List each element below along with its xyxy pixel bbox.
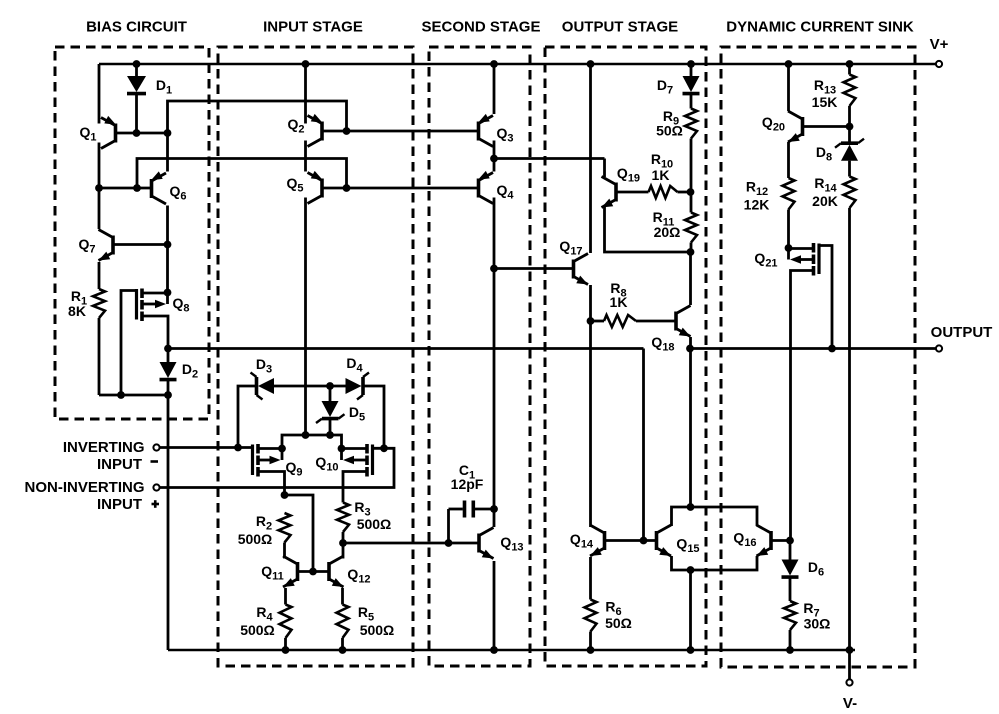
wire Q20 base [804, 125, 850, 128]
node Q8 drain [164, 289, 172, 297]
bias circuit dashed box [55, 47, 209, 419]
label R9 value [656, 123, 683, 139]
svg-text:500Ω: 500Ω [360, 622, 395, 638]
node Q3 collector [490, 155, 498, 163]
label R7 value [804, 616, 831, 632]
wire Q14 emitter to R6 [589, 557, 592, 600]
diode D1 [127, 76, 146, 94]
svg-text:DYNAMIC CURRENT SINK: DYNAMIC CURRENT SINK [726, 19, 914, 36]
label Q3 [496, 125, 513, 145]
wire non-inverting input [160, 448, 395, 487]
transistor Q12 [329, 556, 344, 587]
output stage dashed box [545, 47, 706, 666]
node Q16 base / D6 / Q21 source [786, 537, 794, 545]
NON-INVERTING terminal [153, 484, 159, 490]
arrow Q21 body [790, 255, 812, 264]
wire Q3 collector to Q19 [494, 157, 605, 160]
capacitor C1 [449, 501, 495, 518]
diode D8 (zener) [835, 139, 864, 161]
V- rail (bottom) [168, 649, 855, 652]
label R8 [610, 280, 626, 300]
label Q20 [762, 114, 785, 134]
resistor R8 [604, 315, 636, 327]
wire Q12 emitter to R5 [341, 588, 344, 605]
diode D2 [160, 362, 177, 380]
svg-text:12K: 12K [744, 197, 770, 213]
node C1 / Q13 collector [490, 505, 498, 513]
wire R4 bottom [284, 638, 287, 650]
wire Q19 collector [603, 159, 606, 178]
output wire right segment [690, 347, 936, 350]
resistor R6 [585, 600, 597, 632]
wire D7 top lead [690, 64, 693, 76]
wire R9 bottom [690, 139, 693, 213]
wire Q7 emitter to R1 [98, 262, 101, 289]
wire R11 bottom [690, 243, 693, 253]
svg-text:500Ω: 500Ω [238, 531, 273, 547]
label Q13 [500, 534, 523, 554]
stage title BIAS CIRCUIT [86, 19, 187, 36]
node R13 / D8 / Q20 base [846, 123, 854, 131]
V- terminal [846, 679, 852, 685]
transistor Q20 [788, 111, 803, 142]
wire Q2-Q3 base [323, 130, 477, 133]
wire Q8 source lead [144, 316, 169, 349]
label R12 [746, 179, 768, 199]
resistor R10 [649, 186, 678, 198]
label Q10 [315, 454, 338, 474]
input stage dashed box [218, 47, 413, 666]
wire Q15 collector top link [672, 507, 758, 526]
wire Q4 collector drop [493, 198, 496, 528]
label INVERTING [63, 439, 145, 456]
svg-text:8K: 8K [68, 303, 86, 319]
wire C1 left drop [447, 509, 450, 543]
node Q21 drain / R12 [785, 244, 793, 252]
node Q9 drain [278, 445, 286, 453]
node Q17 emitter / R8 [587, 317, 595, 325]
node R7 / V- rail [786, 646, 794, 654]
wire long drop to V- rail [167, 395, 170, 650]
label Q14 [570, 531, 594, 551]
label R6 [605, 599, 621, 619]
label plus sign [152, 500, 160, 508]
wire R10 left lead [618, 191, 649, 194]
resistor R9 [685, 109, 697, 139]
OUTPUT terminal [936, 345, 942, 351]
wire V+ to Q1 emitter [98, 64, 101, 124]
label R14 value [812, 193, 838, 209]
resistor R2 [279, 513, 291, 543]
label NON-INVERTING [25, 479, 145, 496]
label C1 [459, 462, 475, 482]
label R13 [814, 77, 836, 97]
resistor R3 [337, 503, 349, 533]
wire riser to input pair [168, 101, 347, 133]
label INPUT (non-inverting) [97, 496, 142, 513]
svg-text:INPUT: INPUT [97, 456, 142, 473]
label R2 [256, 513, 272, 533]
wire Q18 collector [689, 252, 692, 305]
svg-text:15K: 15K [812, 94, 838, 110]
node Q7 base [164, 241, 172, 249]
V+ rail [99, 63, 936, 66]
wire Q17 collector drop [589, 64, 592, 253]
wire Q21 gate lead [819, 246, 832, 349]
diode D7 [683, 76, 700, 94]
transistor Q15 [657, 525, 672, 556]
svg-text:12pF: 12pF [451, 476, 484, 492]
transistor Q17 [574, 254, 589, 285]
wire Q21 body stub [787, 249, 790, 260]
resistor R7 [784, 601, 796, 630]
label D6 [808, 559, 824, 579]
svg-text:50Ω: 50Ω [605, 615, 632, 631]
svg-text:SECOND STAGE: SECOND STAGE [422, 19, 541, 36]
label Q17 [559, 238, 582, 258]
node R9-R10-R11 [687, 188, 695, 196]
node D2 bottom [164, 391, 172, 399]
node Q17 collector rail [587, 60, 595, 68]
transistor Q1 [101, 116, 116, 149]
wire Q2 emitter drop [304, 64, 307, 124]
wire R3 bottom [342, 532, 345, 559]
V+ label [930, 36, 949, 53]
dynamic current sink dashed box [721, 47, 915, 667]
label R3 value [357, 516, 392, 532]
node bottom link center [687, 566, 695, 574]
svg-text:V+: V+ [930, 36, 949, 53]
wire Q9 drain lead [260, 447, 283, 450]
wire Q10 source [343, 472, 366, 503]
wire R3 to Q13 base [343, 542, 478, 545]
svg-text:V-: V- [843, 695, 857, 712]
wire R14 bottom drop [848, 208, 851, 650]
node D1 top [133, 60, 141, 68]
wire R6 bottom [589, 632, 592, 651]
wire Q5 collector drop [304, 198, 307, 436]
svg-text:BIAS CIRCUIT: BIAS CIRCUIT [86, 19, 187, 36]
stage title INPUT STAGE [263, 19, 363, 36]
wire drain bridge [282, 435, 342, 449]
mosfet Q9 [253, 444, 259, 477]
wire D1 bottom [135, 95, 138, 134]
stage title SECOND STAGE [422, 19, 541, 36]
diode D5 (zener) [316, 401, 345, 423]
node Q4 collector / Q17 base [490, 265, 498, 273]
wire Q4 emitter [493, 159, 496, 172]
label Q15 [676, 536, 699, 556]
node Q3 emitter rail [490, 60, 498, 68]
wire D5 top lead [329, 386, 332, 401]
wire Q4 collector to Q17 base [494, 267, 572, 270]
wire D6 top lead [789, 541, 792, 560]
label D5 [349, 404, 365, 424]
label Q16 [733, 530, 756, 550]
OUTPUT label [931, 324, 993, 341]
wire bottom link to V- rail [689, 570, 692, 650]
resistor R13 [844, 75, 856, 107]
wire Q21 drain lead [789, 247, 813, 250]
mosfet Q21 [814, 243, 820, 276]
resistor R11 [685, 213, 697, 243]
node Q18 emitter / output [686, 345, 694, 353]
wire Q8 body stub [166, 293, 169, 304]
node R2 top / Q9 source [281, 491, 289, 499]
node Q6 base riser [133, 184, 141, 192]
node Q13 emitter / V- rail [490, 646, 498, 654]
label Q18 [651, 334, 674, 354]
svg-text:500Ω: 500Ω [357, 516, 392, 532]
wire inverting input [160, 446, 253, 449]
resistor R14 [844, 177, 856, 209]
wire Q19 emitter drop [605, 207, 691, 252]
label R4 [256, 604, 273, 624]
node R4 / V- rail [282, 646, 290, 654]
wire Q11-Q12 base [299, 570, 328, 573]
transistor Q14 [590, 525, 605, 556]
wire D7 to R9 [690, 95, 693, 109]
node Q2 emitter rail [302, 60, 310, 68]
wire D1 top [135, 64, 138, 76]
wire Q7 base [114, 243, 168, 246]
node Q5 base riser [343, 184, 351, 192]
label R8 value [610, 294, 628, 310]
wire output to Q14-Q15 base [642, 349, 645, 541]
node Q11-Q12 base [309, 568, 317, 576]
resistor R1 [93, 289, 105, 318]
svg-text:OUTPUT STAGE: OUTPUT STAGE [562, 19, 678, 36]
transistor Q18 [676, 306, 691, 337]
label R1 value [68, 303, 86, 319]
label R4 value [240, 622, 275, 638]
node D4 / Q10 gate [380, 444, 388, 452]
node R3 bottom / second stage [339, 539, 347, 547]
node bridge / D5 [326, 431, 334, 439]
wire Q16 base [772, 539, 790, 542]
wire Q3 emitter drop [493, 64, 496, 114]
wire R1 bottom [98, 318, 101, 395]
label R1 [71, 288, 87, 308]
node R6 / V- rail [587, 646, 595, 654]
wire R10 right lead [678, 191, 691, 194]
wire R13 bottom [848, 106, 851, 143]
label D1 [156, 77, 172, 97]
INVERTING terminal [153, 444, 159, 450]
node bridge / Q5 collector [302, 431, 310, 439]
wire R8 left lead [591, 320, 605, 323]
wire Q1 base [117, 132, 168, 135]
wire D3-D4 link [274, 385, 346, 388]
wire D3 left drop [238, 386, 256, 448]
label R10 value [652, 167, 670, 183]
node top link / Q18 emitter [687, 503, 695, 511]
wire Q9 source [260, 472, 285, 496]
label Q6 [169, 183, 186, 203]
diode D3 (zener) [251, 373, 275, 400]
node bottom link rail [687, 646, 695, 654]
label Q5 [286, 175, 303, 195]
arrow Q8 body [144, 300, 167, 309]
wire Q11 emitter to R4 [284, 588, 287, 605]
label R7 [803, 600, 819, 620]
label D3 [256, 356, 272, 376]
wire Q20 collector to R12 [787, 142, 790, 178]
wire D2 bottom [167, 381, 170, 396]
wire R5 bottom [341, 638, 344, 650]
wire Q17 emitter drop [589, 285, 592, 527]
wire Q6 collector drop [166, 206, 169, 293]
stage title DYNAMIC CURRENT SINK [726, 19, 914, 36]
wire Q8 gate lead [121, 291, 137, 396]
label D4 [346, 355, 363, 375]
svg-text:1K: 1K [610, 294, 628, 310]
label C1 value [451, 476, 484, 492]
wire Q21 source [791, 271, 813, 541]
label R11 value [654, 224, 681, 240]
resistor R5 [337, 605, 349, 639]
node Q14-Q15 base [640, 537, 648, 545]
transistor Q11 [283, 556, 298, 587]
svg-text:INPUT STAGE: INPUT STAGE [263, 19, 363, 36]
wire Q8 drain lead [144, 292, 168, 295]
label R14 [814, 175, 837, 195]
label D2 [182, 361, 198, 381]
svg-text:1K: 1K [652, 167, 670, 183]
node Q1 base / D1 [133, 129, 141, 137]
node R5 / V- rail [339, 646, 347, 654]
transistor Q3 [478, 114, 493, 147]
transistor Q16 [757, 525, 772, 556]
transistor Q13 [479, 528, 494, 559]
label R2 value [238, 531, 273, 547]
svg-text:OUTPUT: OUTPUT [931, 324, 993, 341]
label Q9 [285, 459, 302, 479]
wire R8 right lead [636, 320, 675, 323]
wire Q6 base [99, 187, 151, 190]
mosfet Q8 [137, 289, 143, 322]
node Q2 base riser [343, 127, 351, 135]
label R5 [358, 604, 374, 624]
node inverting / D3 drop [234, 444, 242, 452]
svg-text:30Ω: 30Ω [804, 616, 831, 632]
svg-text:50Ω: 50Ω [656, 123, 683, 139]
wire D8 to R14 [848, 161, 851, 177]
arrow Q10 body [343, 456, 366, 465]
label R6 value [605, 615, 632, 631]
node R13 rail [846, 60, 854, 68]
label Q4 [496, 182, 514, 202]
mosfet Q10 [367, 444, 373, 477]
svg-text:20K: 20K [812, 193, 838, 209]
wire R12 bottom [787, 210, 790, 249]
wire riser to Q6 emitter [166, 133, 169, 172]
svg-text:20Ω: 20Ω [654, 224, 681, 240]
label D8 [816, 144, 832, 164]
node Q20 emitter rail [785, 60, 793, 68]
node Q10 drain [338, 445, 346, 453]
wire R13 top lead [848, 64, 851, 75]
diode D6 [782, 560, 799, 578]
label Q8 [172, 295, 189, 315]
wire Q15 emitter bottom link [672, 556, 758, 570]
label Q21 [754, 250, 777, 270]
wire Q10 drain lead [342, 447, 366, 450]
svg-text:NON-INVERTING: NON-INVERTING [25, 479, 145, 496]
transistor Q19 [602, 177, 617, 208]
wire bias bottom link [99, 394, 168, 397]
transistor Q5 [308, 171, 323, 204]
label R9 [663, 108, 679, 128]
transistor Q2 [308, 114, 323, 147]
wire R2 bottom [283, 543, 286, 559]
label INPUT (inverting) [97, 456, 142, 473]
wire R2 top link [285, 495, 314, 572]
wire Q18 emitter drop [689, 337, 692, 507]
label R3 [354, 499, 370, 519]
transistor Q4 [478, 171, 493, 204]
label minus sign [151, 460, 159, 463]
label D7 [657, 77, 673, 97]
wire Q13 emitter drop [493, 561, 496, 650]
label R5 value [360, 622, 395, 638]
wire Q5-Q4 base [323, 187, 477, 190]
label Q11 [261, 563, 284, 583]
node Q1 base / riser [164, 129, 172, 137]
label Q2 [287, 116, 304, 136]
V+ terminal [936, 61, 942, 67]
wire Q6 base riser to Q5 [137, 159, 347, 189]
wire D5 bottom lead [329, 420, 332, 435]
svg-text:INPUT: INPUT [97, 496, 142, 513]
label Q19 [617, 165, 640, 185]
node Q8 source / output wire / D2 [164, 345, 172, 353]
node D7 top [687, 60, 695, 68]
label R13 value [812, 94, 838, 110]
output wire left segment [168, 347, 644, 350]
wire D2 top [167, 349, 170, 363]
label R10 [651, 151, 673, 171]
transistor Q7 [99, 230, 114, 261]
wire R7 bottom [789, 630, 792, 650]
node Q21 gate / output [828, 345, 836, 353]
wire Q1 collector drop [98, 143, 101, 230]
transistor Q6 [151, 171, 166, 204]
second stage dashed box [429, 47, 530, 666]
wire Q14-Q15 base [606, 539, 656, 542]
label Q12 [347, 566, 370, 586]
resistor R4 [280, 605, 292, 639]
label Q7 [78, 236, 95, 256]
resistor R12 [783, 178, 795, 210]
label R12 value [744, 197, 770, 213]
wire Q20 emitter drop [787, 64, 790, 111]
node R14 / V- rail [846, 646, 854, 654]
node C1 / Q13 base [445, 539, 453, 547]
wire Q2 collector to Q5 emitter [304, 141, 307, 172]
wire D4 right drop [363, 386, 384, 448]
wire D6 to R7 [789, 578, 792, 601]
label Q1 [79, 124, 96, 144]
wire Q9 body stub [281, 449, 284, 461]
svg-text:INVERTING: INVERTING [63, 439, 145, 456]
node Q8 gate / bias bottom [117, 391, 125, 399]
V- label [843, 695, 857, 712]
wire Q10 body stub [340, 449, 343, 461]
stage title OUTPUT STAGE [562, 19, 678, 36]
label R11 [653, 209, 675, 229]
diode D4 (zener) [346, 373, 370, 400]
